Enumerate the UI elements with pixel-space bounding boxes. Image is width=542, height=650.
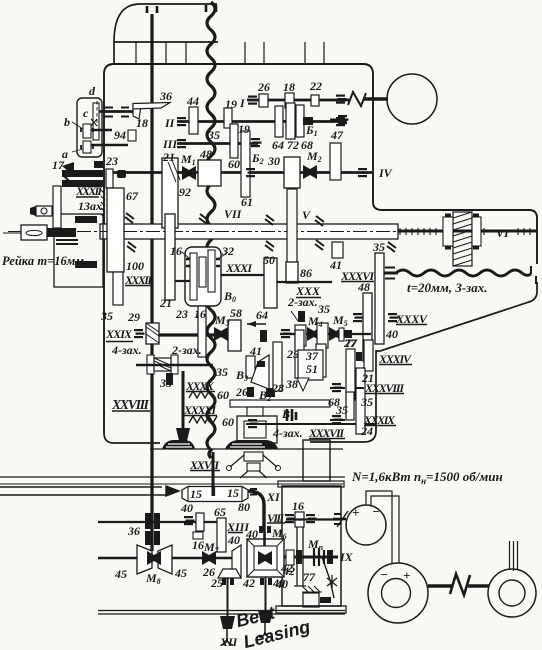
worm XXIX hatch [146,323,159,343]
box M6 corners [247,539,284,577]
leadscrew nut hatched [453,212,472,266]
svg-text:IX: IX [339,550,354,564]
shaft XIII-M8 row [98,557,233,559]
svg-text:32: 32 [221,244,234,258]
diff shaft out [221,274,264,276]
svg-text:77: 77 [303,570,316,584]
bevel 38 [297,378,309,391]
svg-text:c: c [83,106,89,120]
gear 35w [166,373,173,385]
bevel v4 [220,616,235,629]
svg-text:VII: VII [224,207,243,221]
gear 22 [311,95,319,106]
worm XXIX [146,323,159,344]
svg-text:35: 35 [317,302,330,316]
column d vertical [93,103,99,140]
column flange [278,481,344,487]
worm cluster black rows [62,170,103,268]
svg-text:18: 18 [283,80,295,94]
clutch Mp [314,548,324,566]
bearing shaft IV right [358,168,369,177]
gear 77 tall [346,349,355,400]
bearing dashes d shaft [104,108,129,117]
svg-text:26: 26 [235,385,248,399]
svg-text:77: 77 [345,336,358,350]
svg-text:35: 35 [159,376,172,390]
table column [247,407,263,416]
shaft v5 [265,577,267,612]
shaft 36 row [98,521,218,523]
svg-text:35: 35 [360,395,373,409]
gear 100 column [107,188,124,272]
gear M4 left [295,325,306,346]
label underlines [76,197,427,533]
shaft 21b-diff [175,280,190,282]
svg-text:35: 35 [100,309,113,323]
teeth v4 top [222,578,234,585]
svg-text:60: 60 [222,415,234,429]
gear 44 [189,107,198,134]
svg-text:100: 100 [126,259,144,273]
indexing circles [227,466,232,471]
svg-text:37: 37 [305,349,319,363]
worm 2zah [147,355,154,374]
svg-text:40: 40 [245,527,258,541]
worm housing outline [54,214,103,287]
reverser M8 bevels [147,551,161,565]
svg-text:48: 48 [199,147,212,161]
gear 65 tall [217,518,226,552]
table inner [244,421,266,438]
table housing [237,416,277,443]
shaft 16-77 vertical [294,527,306,586]
gear block 64 [275,106,283,137]
worm band XXXXI [189,416,217,423]
mesh blob 67 [117,170,126,178]
svg-text:III: III [162,137,178,151]
svg-text:80: 80 [238,500,250,514]
hatch VIII row a [285,514,296,523]
gear 36b teeth [145,513,160,529]
gear 18b [285,93,294,108]
rack shaft thick [47,228,76,237]
svg-text:44: 44 [186,94,199,108]
box M6 inner [254,546,277,570]
shaft vertical main top hatch [147,6,157,13]
solenoid box [303,593,319,607]
svg-text:64: 64 [272,138,284,152]
gear 60 [230,124,238,158]
bevel v5 [258,610,273,623]
clamp circle [41,208,47,214]
subframe abc [77,98,102,157]
indexing legs [230,455,277,478]
svg-text:XII: XII [219,635,239,649]
shaft XXIX-M3 [159,333,214,336]
svg-text:18: 18 [136,116,148,130]
svg-text:17: 17 [52,158,65,172]
hub B1 [303,117,313,125]
worm 2zah hatch [154,358,171,371]
svg-text:2-зах.: 2-зах. [171,343,202,357]
bevel B2 mark [266,388,275,397]
svg-text:XXXII: XXXII [75,184,103,198]
svg-text:35: 35 [372,240,385,254]
svg-text:+: + [403,568,410,583]
motor DC big [368,563,428,623]
svg-text:−: − [380,567,388,582]
axis left arrow [3,232,21,234]
diff gear 3 [208,250,215,292]
gear 26 [259,94,268,107]
bearing shaft II left [177,117,188,126]
leadscrew VI [398,230,537,233]
svg-text:13ах.: 13ах. [78,199,105,213]
table bar [230,400,330,407]
gear 86 [286,262,298,283]
diff hub marks [186,259,220,266]
hatch XXXIX [332,415,343,424]
gear 23 top [106,169,113,188]
bevel B3 small [247,387,254,397]
clutch M2 [303,165,317,179]
shaft II [177,120,344,123]
frame saddle line 2 [0,483,343,485]
gear 35a [113,272,123,305]
bearing shaft III left [177,139,188,148]
svg-text:42: 42 [242,576,255,590]
hatch 36row [184,516,195,525]
spindle VII body [100,224,398,239]
clutch M5 [329,327,343,341]
frame saddle line [0,476,345,478]
frame chimney top [114,4,218,64]
svg-text:b: b [64,115,70,129]
svg-text:26: 26 [257,80,270,94]
hook v5 [259,623,271,637]
hatch VIII row b [306,514,317,523]
gear 58 [228,320,241,351]
svg-text:35: 35 [207,128,220,142]
svg-text:22: 22 [309,79,322,93]
clutch M4 [307,327,321,341]
motor AC inner [499,580,525,606]
svg-text:4-зах.: 4-зах. [272,426,303,440]
svg-text:30: 30 [267,154,280,168]
coupling hatch I right [336,95,347,104]
break end marks [531,266,536,284]
shaft v4 [227,578,229,616]
svg-text:35: 35 [335,403,348,417]
svg-text:21: 21 [159,296,172,310]
gen stub hatch [334,514,341,524]
motor main circle [387,74,437,124]
svg-text:38: 38 [285,377,298,391]
wire gen-motor [366,491,399,563]
svg-text:29: 29 [127,310,140,324]
hatch B2 [251,138,262,147]
wire gen stub [333,518,346,521]
shaft XI into M6 [263,531,266,546]
svg-text:50: 50 [263,253,275,267]
svg-text:72: 72 [287,138,299,152]
svg-text:51: 51 [306,362,318,376]
svg-text:VI: VI [496,226,510,240]
leadscrew bearing left [443,217,453,246]
clamp mech [36,206,52,216]
rack teeth [56,240,78,244]
leadscrew bearing dots [445,215,479,248]
lever star [327,575,337,588]
gear b [83,124,91,138]
svg-text:19: 19 [225,97,237,111]
worm band XXXX [189,391,213,398]
svg-text:16: 16 [170,244,182,258]
svg-text:16: 16 [194,307,206,321]
svg-text:94: 94 [114,128,126,142]
leader b [72,122,83,152]
svg-text:40: 40 [227,533,240,547]
shaft d horizontal [99,110,133,113]
svg-text:16: 16 [192,538,204,552]
shaft III [177,142,258,145]
shaft VIII right [286,518,341,520]
labels group middle [2,184,487,440]
svg-text:N=1,6кВт nн=1500 об/мин: N=1,6кВт nн=1500 об/мин [351,469,503,486]
bevel cone XIII horizontal [218,569,241,578]
indexing mech box2 [247,463,260,471]
hatch XXXVIII [332,383,343,392]
clutch M7 [202,551,216,565]
cone drum right hatch [250,489,257,495]
stub line below motor [330,119,347,122]
svg-text:d: d [89,84,96,98]
svg-text:21: 21 [162,150,175,164]
gear 94 [128,130,136,141]
gear 50 [264,258,277,308]
vertical bar cluster [53,186,61,228]
hook v4 [221,629,233,645]
gear 42b [286,550,294,565]
marks B1 [287,409,296,421]
shaft XXXIX stub [330,419,345,421]
reverser M8 [137,545,172,574]
box M6 bevels [258,551,272,565]
bearing shaft II right [336,117,347,126]
svg-text:II: II [164,116,176,130]
mesh c cross [91,119,97,126]
svg-text:4-зах.: 4-зах. [111,343,142,357]
shaft V vertical [287,189,297,263]
shaft IV [108,171,372,174]
clamp tip [30,206,36,216]
electric generator small [346,505,386,545]
bed ways double line [98,611,345,615]
bevel cone XIII vertical [232,545,241,578]
shaft DC-AC [428,584,489,588]
gear M5 right [339,328,344,341]
tailstock lens [26,230,42,235]
teeth v5 top [260,578,272,585]
labels group top [52,79,510,240]
clutch N symbol top [348,92,366,106]
hub 40a [193,532,203,539]
svg-text:23: 23 [175,307,188,321]
lever 77 [322,557,334,598]
svg-text:25: 25 [286,347,299,361]
gear v1 bottom teeth [145,531,160,545]
cone drum body [182,487,248,502]
gear 30 [284,157,300,188]
svg-text:XI: XI [266,490,281,504]
diff gear 1 [190,253,197,300]
gear block 68 [296,105,304,137]
box M6 outer [247,539,284,577]
svg-text:19: 19 [238,122,250,136]
shaft vertical wavy top hatch [206,5,216,12]
gear 41a [332,242,343,258]
bevel cone 18 [133,104,141,119]
svg-text:40: 40 [385,327,398,341]
box 51 [298,350,323,380]
bevel B3 cone [251,355,269,389]
cone drum divider [212,487,216,496]
shaft XI curve [248,491,264,531]
gear 21c [364,340,373,371]
watermark [234,595,312,650]
shaft I [247,99,350,102]
stub hatch [338,115,349,124]
gear 37 [316,344,326,377]
gear 21b column [165,214,175,300]
wheel 36 blade [133,103,170,110]
shaft vertical main [150,14,153,551]
hatch XXXVII left [248,419,259,428]
svg-text:40: 40 [180,501,193,515]
shaft 64 arrow [247,323,266,325]
shaft XXXVIII stub [330,387,364,389]
solenoid hatch [302,586,322,592]
svg-text:Рейка m=16мм: Рейка m=16мм [2,254,84,268]
indexing mech box [244,452,263,461]
gen clutch diagonal [337,511,348,527]
frame bed slope [310,282,537,442]
svg-text:16: 16 [292,499,304,513]
shaft XXXVII [246,423,376,425]
svg-text:25: 25 [210,576,223,590]
hatch M1 [168,160,180,182]
dashed axis abc [96,101,98,126]
frame bottom left corner [104,433,160,443]
svg-text:15: 15 [190,487,202,501]
gear block 72 [286,103,295,139]
gear 47 [330,143,341,180]
gear 40a [196,513,204,531]
svg-text:IV: IV [378,166,393,180]
hatch XXXV [388,313,399,322]
shaft XXXVI h [277,281,332,283]
column workpiece [303,440,330,481]
bevel v3 bottom [176,428,190,441]
svg-text:41: 41 [249,344,262,358]
svg-text:60: 60 [217,388,229,402]
gear 25 tall [295,330,304,378]
svg-text:36: 36 [127,524,140,538]
svg-text:92: 92 [179,185,191,199]
gear 21-92 column [162,158,178,228]
leadscrew bearing right [472,217,481,246]
hatch XXIX left [134,329,145,338]
diff housing [185,247,221,306]
svg-text:58: 58 [230,306,242,320]
svg-text:15: 15 [227,486,239,500]
svg-text:65: 65 [214,505,226,519]
shaft vertical wavy break [207,2,215,458]
electric box frame [282,486,341,606]
gear 19a [224,108,232,128]
hatch IV left [246,168,257,177]
svg-text:XXXI: XXXI [225,261,253,275]
frame main gearbox [104,64,537,433]
clutch M3 [214,327,228,341]
shaft v3 vertical [182,371,185,432]
electric box flange [276,606,346,613]
svg-text:t=20мм, 3-зах.: t=20мм, 3-зах. [407,280,487,295]
mound left [162,440,195,449]
shaft 2zah [136,364,213,366]
motor DC inner [382,579,411,608]
svg-text:−: − [372,504,380,519]
svg-text:45: 45 [114,567,127,581]
svg-text:XXIX: XXIX [105,327,133,341]
svg-text:40: 40 [275,577,288,591]
spindle centerline [8,231,537,233]
clutch N symbol bottom [450,574,470,595]
hatch IX a [296,550,302,564]
svg-text:V: V [302,208,311,222]
svg-text:42: 42 [280,561,293,575]
svg-text:61: 61 [241,195,253,209]
svg-text:64: 64 [256,308,268,322]
motor AC leads [510,541,518,571]
shaft a horizontal [91,144,128,147]
feed shaft arrow [0,486,179,496]
gear 19-61 column [241,131,250,197]
gear 16c [295,512,304,527]
gear 35c [346,392,354,420]
hatch M4row left [281,329,292,338]
gear 24 tall [356,368,365,434]
shaft c horizontal [91,129,112,132]
svg-text:23: 23 [105,154,118,168]
shaft IX [284,556,338,559]
svg-text:86: 86 [300,266,312,280]
gear 28 [273,342,282,391]
svg-text:45: 45 [174,566,187,580]
shaft I to motor [364,97,388,100]
gear 35b [375,253,384,344]
clutch M1 [182,166,196,180]
gear mid [317,323,328,348]
frame table line [150,448,343,450]
motor AC outer [488,569,536,617]
cone drum cap lines [188,487,242,502]
hatch IX b [327,550,333,564]
svg-text:+: + [352,505,359,520]
box 48 [198,160,221,186]
svg-text:36: 36 [159,89,172,103]
svg-text:60: 60 [228,157,240,171]
